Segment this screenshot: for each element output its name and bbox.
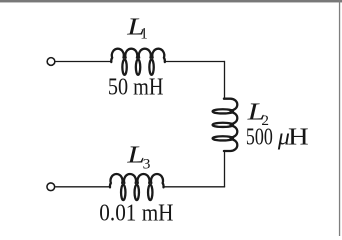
wire bottom-left horizontal <box>55 186 111 188</box>
svg-text:3: 3 <box>143 156 151 172</box>
svg-text:0.01 mH: 0.01 mH <box>99 201 173 227</box>
svg-text:H: H <box>288 125 309 151</box>
wire right vertical upper <box>224 61 226 100</box>
svg-text:50 mH: 50 mH <box>108 75 164 101</box>
wire right vertical lower <box>224 151 226 187</box>
terminal bottom-left <box>47 183 55 191</box>
wire bottom-right horizontal <box>163 186 225 188</box>
wire top-left horizontal <box>55 61 112 63</box>
inductor L1 coil <box>111 49 165 75</box>
svg-text:500: 500 <box>246 125 273 151</box>
svg-text:1: 1 <box>140 26 148 43</box>
inductor L2 coil <box>213 99 238 151</box>
wire top-right horizontal <box>164 61 224 63</box>
inductor L3 coil <box>110 174 164 200</box>
terminal top-left <box>47 58 55 66</box>
